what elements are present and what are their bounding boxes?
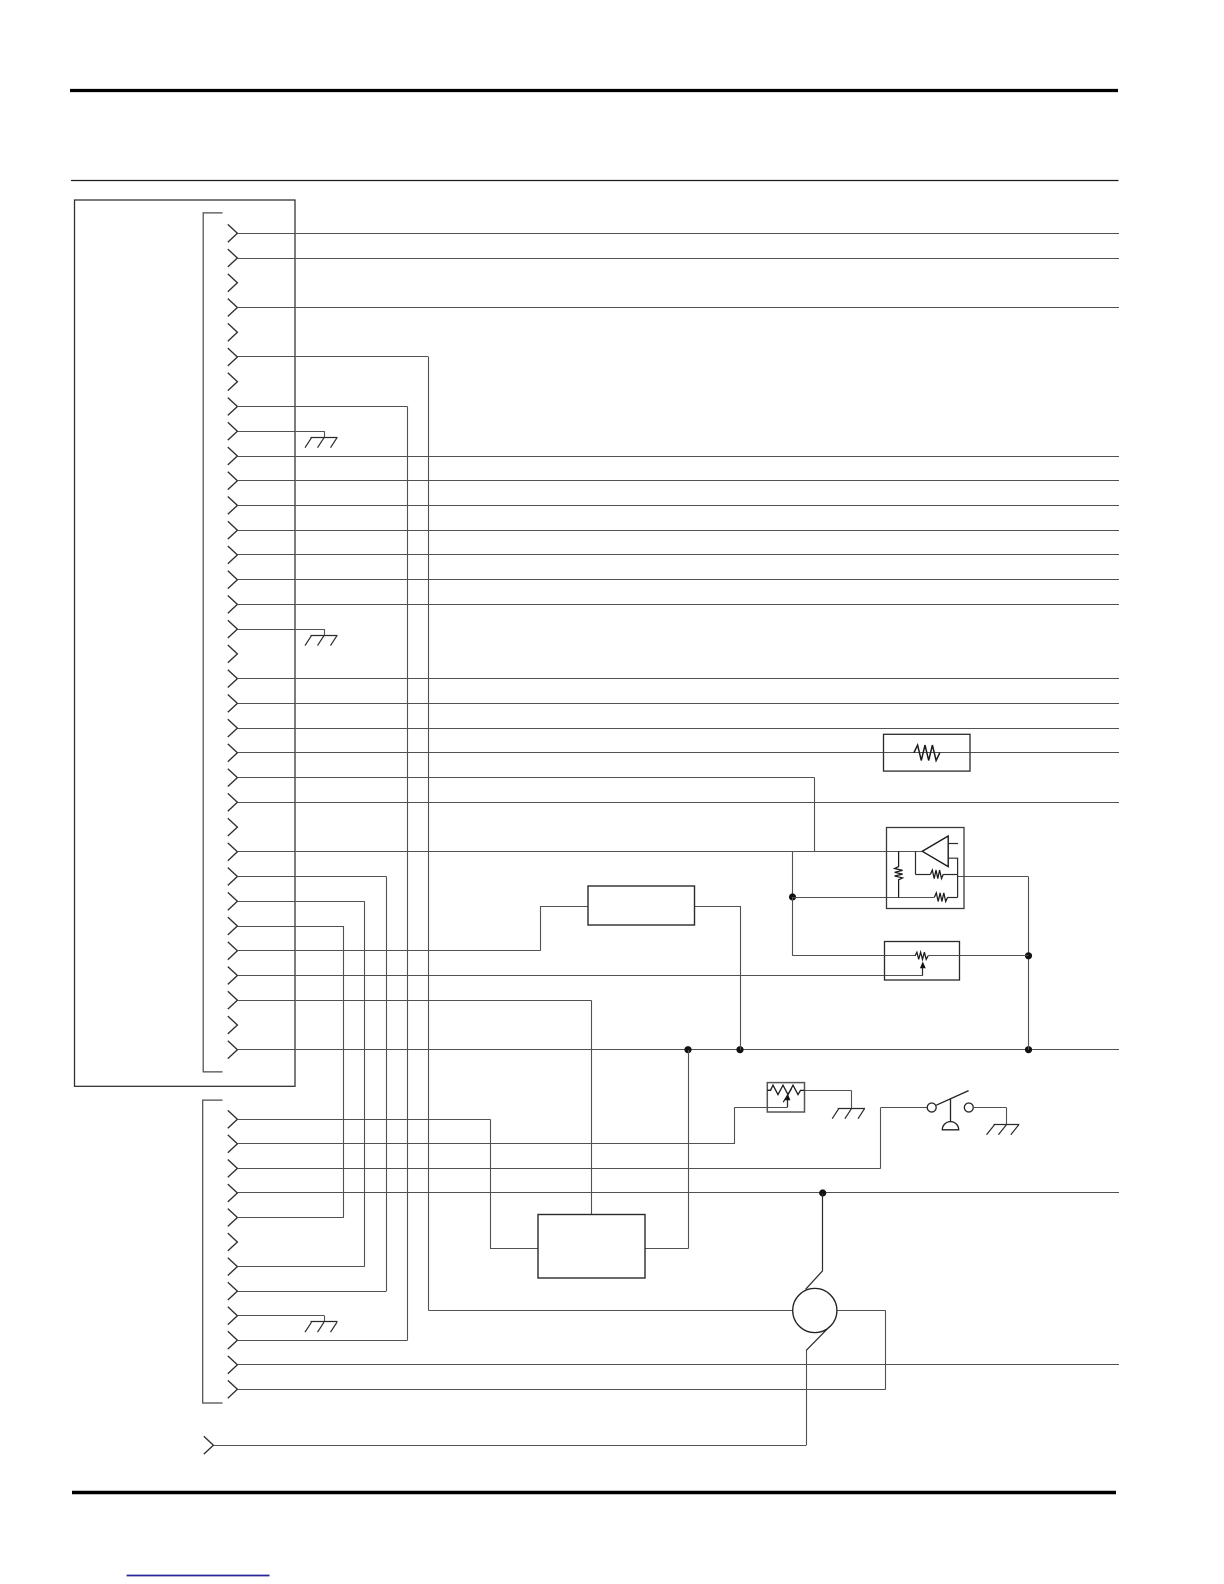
wire J1 pin 15 to right edge bbox=[237, 579, 1119, 581]
wire pin 30 riser bbox=[540, 906, 542, 951]
wire U2 output drop bbox=[740, 906, 742, 1050]
wire J1 pin 6 horizontal bbox=[237, 356, 428, 358]
connector J1 pin 25 bbox=[228, 818, 238, 836]
wire bus B vertical bbox=[407, 407, 409, 1341]
connector J1 pin 17 bbox=[228, 620, 238, 638]
connector J1 pin 22 bbox=[228, 744, 238, 762]
wire pin 3 riser bbox=[880, 1108, 882, 1169]
switch SW1 plunger bbox=[950, 1099, 952, 1123]
wire J1 pin 2 to right edge bbox=[237, 258, 1119, 260]
resistor R1 box bbox=[884, 734, 971, 771]
wire J1 pin 29 horizontal bbox=[237, 926, 343, 928]
wire loose pin to motor bbox=[213, 1445, 806, 1447]
connector J1 pin 12 bbox=[228, 497, 238, 515]
wire J1 pin 30 horizontal bbox=[237, 950, 540, 952]
connector J1 pin 10 bbox=[228, 447, 238, 465]
switch SW1 lever bbox=[936, 1091, 968, 1106]
trimmer VR2 box bbox=[767, 1083, 804, 1112]
wire pin 12 riser bbox=[885, 1311, 887, 1390]
wire J1 pin 19 to right edge bbox=[237, 678, 1119, 680]
resistor R4 vertical zigzag bbox=[895, 851, 903, 897]
wire amplifier output drop bbox=[1028, 877, 1030, 1050]
connector J1 pin 2 bbox=[228, 249, 238, 267]
junction node N6 bbox=[819, 1189, 826, 1196]
motor M1 bottom lead bbox=[806, 1326, 830, 1350]
wire node N1 drop bbox=[792, 852, 794, 897]
block U2 bbox=[588, 886, 695, 925]
connector J1 pin 7 bbox=[228, 373, 238, 391]
trimmer VR2 zigzag bbox=[767, 1085, 804, 1094]
potentiometer VR1 wiper wire bbox=[885, 975, 923, 977]
junction node N2 bbox=[684, 1046, 691, 1053]
connector J2 pin 1 bbox=[228, 1110, 238, 1128]
wire bus C vertical bbox=[386, 877, 388, 1292]
connector J2 pin 12 bbox=[228, 1380, 238, 1398]
ground G1 bbox=[311, 437, 338, 439]
wire J1 pin 22 to right edge bbox=[237, 752, 1119, 754]
ground G3 bbox=[311, 1321, 338, 1323]
motor M1 body bbox=[793, 1288, 837, 1332]
resistor R1 wire bbox=[884, 752, 971, 754]
connector J1 pin 32 bbox=[228, 991, 238, 1009]
wire J2 pin 12 horizontal bbox=[237, 1389, 885, 1391]
block U3 bbox=[538, 1215, 645, 1279]
wire J1 pin 1 to right edge bbox=[237, 233, 1119, 235]
wire potentiometer to node N5 bbox=[928, 955, 1028, 957]
trimmer VR2 wiper bbox=[767, 1107, 787, 1109]
connector J1 pin 4 bbox=[228, 299, 238, 317]
wire pin 23 drop bbox=[814, 778, 816, 852]
connector J2 bracket bbox=[203, 1100, 223, 1403]
wire motor right lead bbox=[837, 1310, 886, 1312]
wire J2 pin 1 horizontal bbox=[237, 1119, 490, 1121]
wire node N2 drop bbox=[688, 1050, 690, 1249]
wire J2 pin 3 horizontal bbox=[237, 1168, 880, 1170]
connector J2 pin 7 bbox=[228, 1258, 238, 1276]
junction node N4 bbox=[1025, 1046, 1032, 1053]
connector J1 body bbox=[75, 200, 296, 1086]
wire to U2 input bbox=[540, 906, 588, 908]
wire J1 pin 21 to right edge bbox=[237, 728, 1119, 730]
connector J1 pin 19 bbox=[228, 670, 238, 688]
connector J1 pin 24 bbox=[228, 793, 238, 811]
wire J1 pin 16 to right edge bbox=[237, 604, 1119, 606]
connector J1 pin 18 bbox=[228, 645, 238, 663]
connector J1 pin 21 bbox=[228, 719, 238, 737]
wire J1 pin 28 horizontal bbox=[237, 901, 364, 903]
potentiometer VR1 right lead bbox=[928, 955, 959, 957]
junction node N5 bbox=[1025, 952, 1032, 959]
wire node N1 to feedback resistor bbox=[793, 897, 935, 899]
footer link underline bbox=[127, 1575, 270, 1577]
connector J1 pin 15 bbox=[228, 571, 238, 589]
resistor R2 to output bbox=[943, 874, 957, 876]
switch SW1 button bbox=[942, 1122, 958, 1130]
resistor R3 to output bbox=[948, 897, 958, 899]
potentiometer VR1 box bbox=[885, 942, 960, 981]
ground G2 bbox=[311, 635, 338, 637]
wire pin 2 riser bbox=[734, 1107, 736, 1144]
wire to switch left contact bbox=[881, 1107, 928, 1109]
wire node N1 to potentiometer bbox=[792, 897, 794, 956]
connector J1 pin 9 bbox=[228, 422, 238, 440]
wire J2 pin 9 to ground bbox=[237, 1315, 324, 1317]
resistor R1 zigzag bbox=[914, 745, 940, 760]
connector J1 pin 11 bbox=[228, 472, 238, 490]
junction node N3 bbox=[736, 1046, 743, 1053]
wire J2 pin 11 to right edge bbox=[237, 1364, 1119, 1366]
page top rule bbox=[70, 89, 1118, 92]
wire to U3 right bbox=[645, 1248, 688, 1250]
ground G4 bbox=[838, 1108, 865, 1110]
wire J1 pin 17 to ground bbox=[237, 629, 324, 631]
connector J1 pin 3 bbox=[228, 274, 238, 292]
wire J1 pin 9 to ground bbox=[237, 431, 324, 433]
wire SW1 to ground bbox=[973, 1107, 1006, 1109]
resistor R2 zigzag bbox=[931, 870, 944, 879]
wire J1 pin 11 to right edge bbox=[237, 480, 1119, 482]
switch SW1 left contact bbox=[927, 1103, 936, 1112]
connector J1 pin 34 bbox=[228, 1041, 238, 1059]
potentiometer VR1 zigzag bbox=[915, 952, 928, 959]
wire J1 pin 20 to right edge bbox=[237, 703, 1119, 705]
motor M1 top lead bbox=[822, 1193, 824, 1271]
connector J2 pin 10 bbox=[228, 1331, 238, 1349]
connector J1 pin 30 bbox=[228, 942, 238, 960]
wire J2 pin 5 horizontal bbox=[237, 1217, 343, 1219]
connector J1 pin 33 bbox=[228, 1016, 238, 1034]
wire bus E vertical bbox=[343, 926, 345, 1218]
wire J1 pin 26 to amplifier bbox=[237, 851, 922, 853]
wire to trimmer wiper bbox=[735, 1107, 788, 1109]
wire bus F vertical bbox=[591, 1000, 593, 1214]
connector J2 pin 8 bbox=[228, 1282, 238, 1300]
connector J1 pin 14 bbox=[228, 546, 238, 564]
wire amplifier output bbox=[958, 876, 1029, 878]
amplifier U1 bottom stub bbox=[948, 858, 957, 897]
wire bus D vertical bbox=[364, 901, 366, 1266]
amplifier U1 box bbox=[887, 828, 965, 909]
connector J1 pin 16 bbox=[228, 596, 238, 614]
connector J1 bracket bbox=[203, 213, 222, 1072]
wire motor bottom riser bbox=[806, 1350, 808, 1445]
connector J1 pin 13 bbox=[228, 521, 238, 539]
connector J2 pin 6 bbox=[228, 1233, 238, 1251]
switch SW1 right contact bbox=[964, 1103, 973, 1112]
wire J1 pin 24 to right edge bbox=[237, 802, 1119, 804]
potentiometer VR1 wiper arrow bbox=[922, 967, 924, 976]
connector J2 pin 11 bbox=[228, 1356, 238, 1374]
connector J1 pin 26 bbox=[228, 843, 238, 861]
wire J1 pin 34 to right edge bbox=[237, 1049, 1119, 1051]
wire J1 pin 23 horizontal bbox=[237, 777, 814, 779]
wire J1 pin 12 to right edge bbox=[237, 505, 1119, 507]
wire J1 pin 32 horizontal bbox=[237, 1000, 591, 1002]
wire to U3 left bbox=[490, 1248, 538, 1250]
connector J1 pin 28 bbox=[228, 892, 238, 910]
wire VR2 to ground bbox=[805, 1090, 852, 1092]
connector J2 pin 3 bbox=[228, 1160, 238, 1178]
wire J2 pin 4 to right edge bbox=[237, 1192, 1119, 1194]
wire J2 pin 10 horizontal bbox=[237, 1340, 407, 1342]
connector J2 pin 4 bbox=[228, 1184, 238, 1202]
connector J1 pin 29 bbox=[228, 917, 238, 935]
wire J1 pin 13 to right edge bbox=[237, 530, 1119, 532]
amplifier U1 top stub bbox=[948, 843, 958, 845]
wire J2 pin 8 horizontal bbox=[237, 1291, 386, 1293]
connector J2 pin 2 bbox=[228, 1135, 238, 1153]
potentiometer VR1 left lead bbox=[885, 955, 916, 957]
wire J2 pin 7 horizontal bbox=[237, 1266, 364, 1268]
wire motor left lead bbox=[429, 1310, 793, 1312]
connector J1 pin 5 bbox=[228, 323, 238, 341]
wire J1 pin 8 horizontal bbox=[237, 406, 407, 408]
resistor R2 lead bbox=[915, 874, 930, 876]
connector J1 pin 23 bbox=[228, 769, 238, 787]
connector J1 pin 8 bbox=[228, 398, 238, 416]
connector J2 pin 5 bbox=[228, 1209, 238, 1227]
wire J1 pin 10 to right edge bbox=[237, 456, 1119, 458]
connector J1 pin 27 bbox=[228, 868, 238, 886]
wire J1 pin 27 horizontal bbox=[237, 876, 386, 878]
wire pin 1 drop to U3 bbox=[490, 1119, 492, 1249]
ground G5 bbox=[994, 1124, 1020, 1126]
wire bus A vertical bbox=[428, 357, 430, 1311]
wire J1 pin 14 to right edge bbox=[237, 554, 1119, 556]
wire J1 pin 31 to wiper bbox=[237, 975, 922, 977]
connector J1 pin 20 bbox=[228, 695, 238, 713]
amplifier U1 triangle bbox=[922, 836, 948, 867]
bottom rule bbox=[72, 1491, 1116, 1494]
wire J1 pin 4 to right edge bbox=[237, 307, 1119, 309]
resistor R3 zigzag bbox=[934, 893, 947, 902]
connector J1 pin 6 bbox=[228, 348, 238, 366]
wire U1 input branch bbox=[915, 851, 917, 874]
wire U2 output bbox=[695, 906, 741, 908]
junction node N1 bbox=[789, 893, 796, 900]
header rule bbox=[71, 180, 1119, 182]
connector J1 pin 31 bbox=[228, 967, 238, 985]
loose pin P1 bbox=[204, 1436, 214, 1454]
wire J2 pin 2 horizontal bbox=[237, 1143, 735, 1145]
connector J1 pin 1 bbox=[228, 224, 238, 242]
connector J2 pin 9 bbox=[228, 1307, 238, 1325]
